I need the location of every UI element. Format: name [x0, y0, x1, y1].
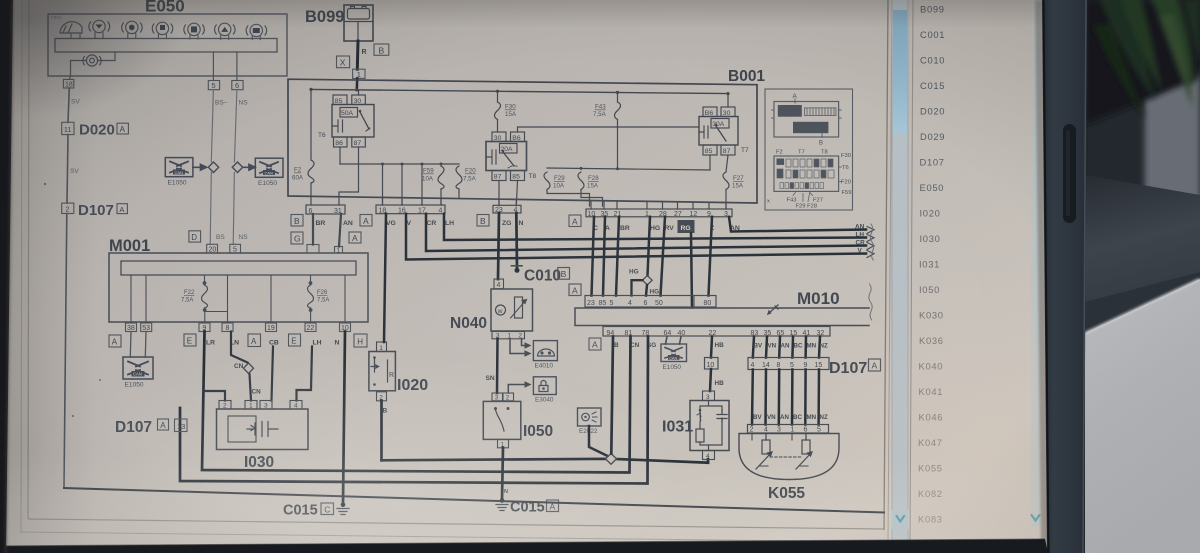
wire E050 box to pin18	[70, 76, 71, 79]
I050 box	[483, 401, 521, 439]
relay I020	[369, 342, 396, 401]
wire HB M010-22 to D107	[711, 337, 712, 358]
wire T7-85 down	[709, 155, 711, 170]
arrow to E1050 right	[243, 165, 255, 171]
fuse F27	[723, 172, 729, 190]
bottom dark strip	[0, 539, 1048, 553]
stubs above strips to B001	[311, 196, 726, 209]
connector letter A (M010-94)	[589, 338, 601, 350]
CAN node E1050 bottom	[123, 357, 153, 379]
T6 pin 30	[352, 95, 366, 105]
wires M010 64,40 to CAN	[666, 337, 682, 345]
M001 inner bar	[121, 261, 356, 275]
label RG inverted	[678, 220, 695, 233]
M001 bottom pin 19	[266, 323, 277, 332]
K055 resistor 2	[802, 440, 810, 454]
wire F28 to pin35	[581, 190, 603, 207]
K055 bottom stubs	[752, 434, 808, 467]
ground C015 A	[496, 498, 508, 510]
M010 bottom strip	[603, 327, 830, 337]
B001 low bus left	[340, 163, 459, 165]
I050 pin 2	[503, 393, 514, 401]
table edge highlight	[1085, 279, 1200, 333]
connector C010 symbol	[512, 265, 523, 267]
connector strip B001/X2 (18,16,17,4)	[376, 205, 445, 214]
K055 dashed link	[770, 456, 802, 458]
K055 body	[739, 434, 839, 480]
wire BR to M001	[312, 214, 314, 245]
wire T8-85 to pin4	[516, 181, 517, 206]
M001 box	[109, 253, 368, 322]
connector letter B (strip3)	[477, 215, 489, 227]
connector letter G	[291, 232, 303, 244]
connector letter B (B099)	[374, 44, 389, 55]
B099 divider	[344, 21, 373, 23]
break squiggle top	[870, 224, 873, 260]
E050 pin 6	[232, 81, 243, 91]
wire T8-B6 right	[518, 127, 700, 132]
I020 pin 1	[377, 342, 387, 352]
N040 pins strip	[492, 332, 525, 339]
I031 box	[690, 401, 729, 451]
I030 pin 1	[245, 401, 257, 410]
E050 gauge 6	[246, 24, 266, 36]
M001 internal wires	[131, 275, 345, 323]
connector letter A (AN wire)	[349, 232, 361, 243]
horn E2022	[578, 408, 602, 426]
rheostat N040	[450, 279, 533, 340]
scrollbar track (diagram pane)	[892, 0, 909, 542]
pen mark on M010	[768, 305, 778, 314]
connector strip B001/X3 (23,4)	[493, 205, 521, 214]
fuse F43	[615, 102, 621, 120]
panel dark fuse	[777, 159, 785, 165]
laptop bezel	[1042, 0, 1087, 553]
CAN node E1050 right	[255, 158, 283, 177]
connector D107 lower pin 13	[175, 419, 188, 432]
wire E2022 to diamond	[589, 426, 607, 456]
B099 terminals	[351, 7, 367, 9]
body computer M001	[109, 237, 368, 323]
I050 pin 3	[492, 393, 503, 401]
E050 sub gauge wires	[71, 52, 116, 76]
wire T8-87 to pin23	[498, 181, 500, 206]
connector D107-10 box	[705, 358, 719, 370]
I020 pin 2	[377, 392, 387, 401]
wire RV to M010	[661, 217, 666, 296]
T7 pin 85	[703, 145, 717, 155]
I030 pin 3	[260, 401, 272, 410]
bc dark block 1	[778, 105, 802, 117]
B099 battery icon	[348, 9, 370, 20]
dust speck 1	[44, 183, 46, 185]
fuel gauge unit K055	[739, 434, 839, 480]
wire Z to M010 pin80	[709, 217, 713, 296]
wire CR net to right edge	[426, 214, 866, 251]
E050 gauge 1	[89, 20, 110, 32]
wire NS (CAN)	[233, 90, 237, 245]
connector D107 inline pin	[62, 203, 74, 213]
wire bus to F43	[617, 92, 619, 102]
connector strip B001/X1 (6,31)	[306, 205, 345, 215]
junction diamond HG	[643, 276, 653, 285]
bezel outer highlight	[1083, 0, 1086, 553]
scrollbar thumb	[0, 0, 1, 1]
plant leaves	[1093, 0, 1200, 118]
E050 sub gauge	[83, 55, 101, 66]
N040 box	[491, 289, 533, 331]
connector D020 inline pin	[62, 122, 74, 134]
wire I031-4 to bus	[707, 459, 710, 463]
break squiggle M010	[869, 284, 872, 320]
B001 bus junction dots	[309, 88, 729, 95]
E050 gauge 2	[122, 21, 142, 33]
wire BS (CAN)	[210, 90, 213, 245]
T8 pin 85	[511, 171, 525, 181]
wire F29 to pin10	[547, 190, 590, 207]
switch I050	[483, 393, 553, 449]
relay T6	[332, 95, 374, 147]
junction diamond E2022	[606, 454, 617, 465]
wire bus to F2	[310, 89, 312, 160]
N040 lamp	[496, 305, 506, 315]
bus wire B (M001-LR to M010-81)	[202, 332, 631, 473]
wire HB to I031	[710, 369, 711, 391]
E050 horn icon	[60, 22, 82, 33]
bus wire A (I020 - diamond - I031)	[382, 459, 709, 463]
B099 box	[344, 5, 373, 41]
relay T8	[486, 132, 527, 181]
connector letter A (strip4)	[569, 215, 581, 227]
K055 wiper arrow 1	[756, 452, 772, 469]
E050 pin 5	[208, 81, 219, 91]
E050 box	[48, 14, 287, 76]
page right border	[884, 0, 888, 530]
T8 pin 30	[492, 132, 506, 142]
fuse F20	[456, 166, 462, 189]
wire N040-2 arrow to E4010	[522, 339, 526, 346]
illustration frame	[765, 89, 853, 210]
connector box D	[189, 231, 201, 242]
wire F2 to pin6	[310, 183, 312, 196]
dashboard module M010	[575, 289, 869, 337]
wire AN net to right edge	[729, 217, 866, 232]
T6 pin 87	[352, 137, 366, 147]
wire AN to M001	[339, 214, 341, 247]
wires D107 to K055	[752, 370, 819, 425]
T7 pin B6	[703, 107, 717, 117]
I050 pin 1	[498, 440, 509, 448]
I030 pin 2	[219, 401, 231, 410]
N040 resistor	[515, 297, 523, 318]
wire HG to diamond	[648, 217, 651, 276]
T8 pin B6	[511, 132, 525, 142]
wire N to C010	[515, 213, 518, 269]
panel fuse row 1	[786, 159, 833, 167]
wire F20 down	[458, 189, 460, 198]
low bus right dots	[580, 167, 620, 170]
wire bus to F30	[497, 91, 499, 102]
room dark background	[1082, 0, 1200, 553]
bus wire D (SV to right)	[64, 488, 884, 513]
junction diamond NS	[232, 162, 242, 173]
wire bus to T7	[727, 94, 729, 107]
low bus dots	[381, 163, 443, 166]
E050 gauge 5	[215, 23, 235, 35]
wire I030-2 stub	[205, 391, 226, 401]
E050 rail-to-pin wires	[213, 52, 237, 76]
I030 box	[217, 409, 309, 450]
wire SV (left vertical)	[64, 88, 69, 488]
connector letter H	[354, 334, 367, 347]
wire SN N040-3 to I050	[496, 339, 499, 393]
scrollbar track (sidebar)	[1031, 0, 1042, 527]
I030 inner icon	[228, 416, 256, 442]
I031 pin 4	[703, 451, 715, 460]
I031 internals	[700, 401, 722, 451]
CAN node E1050 (M010)	[661, 344, 687, 362]
stubs pins 18 16 17	[383, 164, 423, 205]
M001 bottom pin 53	[141, 323, 152, 332]
M001 top pin 1 (AN)	[335, 247, 343, 255]
E050 pin 18	[63, 79, 73, 88]
connector letter E (9/8)	[184, 334, 196, 346]
E050 internal rail	[55, 39, 277, 53]
bc dark block 2	[793, 122, 828, 133]
wire RG to M010	[691, 233, 692, 308]
M001 bottom pin 10	[340, 323, 351, 332]
I020 internals	[373, 356, 376, 359]
body computer drawing	[774, 102, 839, 138]
B001 low bus right	[547, 168, 710, 170]
pillow / couch	[1085, 175, 1200, 322]
M001 jog bracket	[205, 311, 228, 313]
wire T6-86 down	[339, 147, 341, 164]
I030 pin 4	[290, 401, 302, 410]
wire I050-1 to ground	[502, 448, 503, 499]
lock icon E3040	[533, 377, 556, 395]
fusebox B001	[288, 68, 765, 209]
wall band	[1142, 62, 1200, 210]
wire I020-2 to bus	[380, 401, 383, 461]
fuse F26	[308, 285, 314, 308]
wire T6-87 down	[339, 147, 359, 196]
panel mini fuse row	[780, 183, 824, 189]
wire T7-87 to F27	[726, 155, 728, 172]
CAN node E1050 left	[165, 158, 193, 177]
M001 top pin (BR)	[307, 245, 319, 254]
bezel inner edge	[1044, 0, 1049, 553]
battery B099	[305, 5, 373, 41]
bc striped band	[804, 108, 836, 116]
M001 pin 5	[230, 244, 241, 253]
T7 pin 30	[721, 107, 735, 117]
connector D107 right letter A	[869, 359, 881, 371]
connector C010 letter B	[558, 268, 570, 280]
scrollbar down arrow (sidebar)	[1032, 515, 1040, 521]
M001 bottom pin 8	[222, 323, 233, 332]
fuse F30	[495, 102, 501, 120]
wire HG to M010 pin6	[646, 285, 647, 296]
wires M010 83-32 to D107 strip	[753, 337, 820, 358]
wire F27 to pin3	[725, 190, 727, 210]
page outer border bottom	[20, 532, 890, 542]
T7 pin 87	[721, 145, 735, 155]
connector C015 letter C	[321, 503, 334, 515]
wire N (M001-10) to ground C015 C	[343, 332, 345, 504]
dust speck 3	[99, 379, 101, 381]
connector letter B (strip1)	[291, 215, 303, 227]
B001 top bus	[311, 89, 728, 93]
E050 gauge stubs	[71, 33, 260, 40]
bezel vent slot	[1063, 124, 1076, 223]
T6 rating 50A	[340, 108, 358, 118]
connector strip D107 right	[748, 358, 829, 370]
dust speck 2	[72, 415, 74, 417]
fusebox location illustration	[765, 89, 853, 210]
connector letter X (B099)	[337, 56, 350, 68]
connector letter A (below C010)	[569, 284, 581, 296]
wire B M010-94 to diamond	[611, 337, 613, 454]
page inner border bottom	[28, 519, 884, 529]
fuse F29	[544, 172, 550, 190]
T6 pin 86	[334, 137, 348, 147]
fuse F28	[578, 172, 584, 190]
fuse F59	[438, 166, 444, 189]
screen edge shadow	[1035, 0, 1049, 553]
wire E050 box to pins 5,6	[213, 76, 237, 81]
fuse F2	[308, 160, 314, 183]
B001 frame	[288, 79, 757, 203]
M010 top strip	[585, 296, 716, 308]
I050 switch	[494, 407, 497, 410]
fuse F22	[202, 285, 208, 308]
wire ZG to N040	[498, 213, 499, 279]
plant dark corner	[1085, 0, 1200, 125]
scrollbar down arrow (diagram pane)	[892, 510, 909, 529]
B099 pin 1	[353, 69, 365, 79]
connector D020 letter A	[117, 123, 128, 134]
wire C to M010	[592, 217, 595, 296]
E050 gauge 4	[184, 23, 204, 35]
junction diamond CN	[244, 363, 254, 373]
connector D107 letter A	[117, 204, 127, 214]
wire N040-1 arrow to E4010	[510, 339, 525, 354]
CN junction path	[231, 332, 251, 401]
wire B099 to pin1	[356, 41, 360, 69]
F26 junction dots	[309, 282, 312, 285]
wire F59 to pin4	[440, 189, 442, 205]
wire pin1 to B001	[356, 78, 359, 90]
bc side tabs	[772, 110, 842, 118]
connector D107 lower letter A	[158, 419, 169, 430]
connector strip B001/X4 (10,35,21,1,28,27,12,9,3)	[586, 209, 732, 218]
M001 bottom pin 9	[199, 323, 210, 332]
page left border	[21, 0, 22, 531]
M001 pin 20	[207, 244, 218, 253]
lamp E4010	[533, 341, 557, 361]
wire CB to I030-3	[272, 347, 274, 401]
bus wire C (D107-13 to M010-78)	[180, 337, 648, 484]
left dark strip	[0, 0, 13, 553]
connector C015 letter A	[547, 500, 559, 512]
T7 rating 30A	[711, 119, 729, 129]
M001 bottom pin 38	[126, 323, 137, 332]
wire LH to I030-4	[297, 347, 313, 401]
wire F30 to T8	[497, 120, 499, 133]
I031 pin 3	[703, 391, 715, 401]
arrow to E1050 left	[193, 165, 207, 171]
wire I050-2 arrow to E3040	[508, 385, 525, 394]
wire M001-53 to CAN node	[144, 332, 147, 358]
relay T7	[699, 107, 738, 155]
T6 pin 85	[333, 95, 347, 105]
wire M001-38 to CAN node	[129, 332, 132, 358]
diagnostic connector I030	[205, 332, 313, 450]
instrument cluster E050	[48, 0, 287, 76]
wire A to M010	[603, 217, 605, 296]
connector letter A (strip1)	[360, 215, 372, 227]
wire VG to I020	[384, 214, 386, 342]
table top	[1085, 279, 1200, 553]
fuse panel drawing	[774, 156, 839, 191]
interior light switch I031	[690, 391, 729, 460]
connector letter E (22)	[289, 334, 301, 346]
wire BR to M010	[616, 217, 619, 296]
sidebar separator	[910, 0, 913, 546]
E050 gauge 3	[152, 22, 172, 34]
panel fuse row 2	[777, 169, 834, 178]
wire HG diamond branch	[632, 280, 643, 295]
M001 bottom pin 22	[305, 323, 316, 332]
connector strip K055	[748, 425, 829, 434]
connector letter A (38/53)	[109, 335, 121, 347]
K055 wiper arrow 2	[796, 452, 812, 469]
wire LH net to right edge	[444, 214, 866, 240]
T8 pin 87	[492, 171, 506, 181]
M010 box	[575, 308, 869, 326]
I020 box	[369, 352, 396, 391]
K055 resistor 1	[762, 440, 770, 454]
F22 junction dots	[203, 282, 206, 285]
wire V net to right edge	[406, 214, 866, 260]
wire bus to T6	[358, 90, 360, 95]
ground C015 C	[337, 502, 349, 514]
connector letter A (19)	[248, 334, 261, 347]
K055 inner wires	[766, 434, 806, 441]
N040 pin 4	[494, 279, 504, 289]
B099 inner wire	[357, 22, 359, 42]
wire F43 down	[617, 120, 619, 169]
T8 rating 20A	[500, 144, 518, 154]
junction diamond BS	[208, 162, 218, 173]
